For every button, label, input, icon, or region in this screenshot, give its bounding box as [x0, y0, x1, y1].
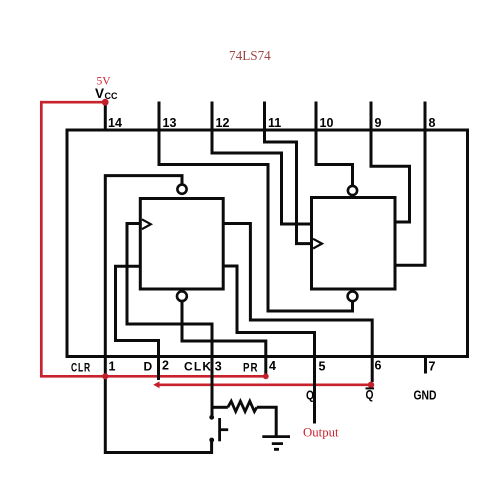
svg-text:CC: CC — [105, 91, 118, 101]
flip-flop U1B preset bubble (top) — [348, 186, 357, 195]
pin 4 stub below — [264, 357, 267, 377]
red node dot at pin 4 — [263, 373, 269, 379]
flip-flop U1A preset bubble (top) — [177, 185, 186, 194]
wire pin 12 D2 to U1B D input — [212, 130, 312, 224]
overbar of Qbar — [366, 387, 375, 389]
svg-text:9: 9 — [375, 116, 382, 130]
svg-text:11: 11 — [268, 116, 281, 130]
svg-text:6: 6 — [375, 359, 382, 373]
red node dot at pin 6 — [368, 382, 374, 388]
pin 10 stub — [315, 102, 318, 131]
pin 8 stub — [424, 102, 427, 131]
svg-text:D: D — [144, 360, 154, 374]
flip-flop U1B box — [312, 198, 396, 290]
svg-text:CLR: CLR — [71, 361, 91, 375]
wire pin 3 to resistor R1 — [212, 406, 228, 409]
pin 9 stub — [370, 102, 373, 131]
wire U1A Q output to pin 6 — [223, 224, 372, 357]
pin 13 stub — [158, 102, 161, 131]
svg-text:1: 1 — [109, 360, 116, 374]
svg-text:3: 3 — [215, 360, 222, 374]
svg-text:5: 5 — [319, 360, 326, 374]
wire pin 9 Q2 from U1B — [371, 130, 410, 222]
pushbutton switch S1 actuator bar — [218, 418, 221, 441]
svg-text:7: 7 — [429, 360, 436, 374]
svg-text:8: 8 — [429, 116, 436, 130]
pin 11 stub — [263, 102, 266, 131]
svg-text:74LS74: 74LS74 — [229, 48, 271, 63]
svg-text:V: V — [95, 86, 104, 101]
red arrow end at pin 2 — [153, 381, 159, 388]
svg-text:2: 2 — [162, 359, 169, 373]
wire pin 3 CLK to U1A clock triangle — [127, 224, 212, 357]
switch S1 bottom contact dot — [209, 438, 214, 443]
wire U1A Qbar output to pin 5 — [223, 266, 314, 357]
red node dot at VCC pin 14 — [102, 99, 109, 106]
svg-text:GND: GND — [414, 388, 437, 403]
pin 5 stub below (output lead) — [313, 357, 316, 424]
wire pin 11 CLK2 to U1B clock triangle — [265, 130, 312, 244]
ground symbol — [262, 437, 290, 450]
svg-text:CLK: CLK — [184, 360, 212, 374]
svg-text:14: 14 — [108, 116, 122, 130]
flip-flop U1A clear bubble (bottom) — [177, 291, 187, 301]
resistor R1 zigzag — [228, 401, 257, 411]
flip-flop U1A box — [140, 199, 223, 290]
red output wire from pin 2 to pin 6 — [157, 383, 373, 386]
wire pin 1 CLR to U1A top bubble — [105, 176, 182, 357]
pin 14 stub (VCC) — [104, 104, 107, 131]
flip-flop U1A clock triangle — [142, 219, 151, 229]
switch S1 top contact dot — [209, 415, 214, 420]
wire pin 4 PR to U1A bottom bubble — [182, 301, 266, 356]
flip-flop U1B clock triangle — [313, 239, 322, 249]
IC U1 74LS74 package outline — [67, 130, 468, 357]
pin 2 stub below — [157, 357, 160, 381]
pin 6 stub below — [371, 357, 374, 383]
flip-flop U1B clear bubble (bottom) — [348, 291, 358, 301]
svg-text:Output: Output — [303, 426, 339, 440]
svg-text:PR: PR — [243, 361, 259, 375]
pushbutton switch S1 stem — [220, 428, 229, 431]
svg-text:12: 12 — [216, 116, 230, 130]
wire pin 2 D to U1A D input — [116, 266, 159, 356]
svg-text:4: 4 — [269, 359, 276, 373]
wire resistor R1 to ground — [257, 407, 276, 436]
pin 7 stub below (GND) — [424, 357, 427, 374]
wire pin 10 PR2 to U1B top bubble — [316, 130, 353, 186]
wire pin 13 CLR2 to U1B bottom bubble — [159, 130, 353, 311]
pin 3 stub below (to switch top contact) — [211, 357, 214, 416]
red 5V supply wire from VCC pin 14 down left side to pin 1 and pin 4 — [41, 102, 265, 376]
svg-text:10: 10 — [320, 116, 334, 130]
wire pin 8 Qbar2 from U1B — [395, 130, 425, 265]
red node dot at pin 1 — [102, 373, 108, 379]
pin 12 stub — [211, 102, 214, 131]
svg-text:13: 13 — [163, 116, 177, 130]
svg-text:Q: Q — [306, 388, 314, 403]
pin 1 stub below (to switch loop) — [105, 357, 211, 453]
